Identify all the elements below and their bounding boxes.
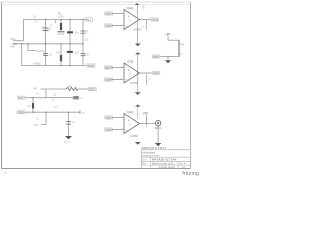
junction dot C4 top bbox=[82, 19, 84, 21]
svg-text:100k: 100k bbox=[58, 15, 64, 19]
frame left border bbox=[1, 2, 3, 169]
svg-text:LM358: LM358 bbox=[130, 81, 138, 85]
svg-text:GND: GND bbox=[64, 141, 70, 144]
junction dot CE2 bottom bbox=[69, 65, 71, 67]
resistor R2 lead bbox=[60, 44, 62, 55]
title block outline top bbox=[141, 149, 190, 151]
svg-text:C: C bbox=[129, 123, 131, 126]
resistor R2 body bbox=[60, 55, 62, 61]
title block column divider 2 bbox=[177, 161, 179, 168]
junction dot D bbox=[167, 56, 169, 58]
wire A lower-left vertical bbox=[21, 44, 23, 66]
svg-text:C2: C2 bbox=[48, 27, 52, 31]
junction dot x45.6 top bbox=[45, 19, 47, 21]
svg-text:+9V: +9V bbox=[86, 18, 91, 22]
frame top border bbox=[2, 1, 191, 3]
wire U1C in1 bbox=[112, 117, 125, 119]
net label A bottom right bbox=[87, 64, 95, 67]
junction dot M2 x46 bbox=[45, 111, 47, 113]
junction dot C5b top bbox=[82, 43, 84, 45]
wire U1A output bbox=[140, 19, 152, 21]
frame right border bbox=[190, 2, 192, 169]
wire U1B in2 bbox=[111, 79, 125, 81]
svg-text:AGND: AGND bbox=[33, 62, 41, 66]
svg-text:MIC: MIC bbox=[11, 45, 16, 49]
junction dot R1 top bbox=[60, 19, 62, 21]
svg-text:IC1A: IC1A bbox=[127, 6, 133, 10]
net label D left bbox=[152, 55, 160, 59]
svg-text:OUT: OUT bbox=[153, 71, 159, 75]
svg-text:10n: 10n bbox=[34, 20, 39, 24]
junction dot bottom x70 bbox=[69, 43, 71, 45]
svg-text:-: - bbox=[126, 65, 127, 69]
connector pin2 stub bbox=[13, 43, 18, 45]
net label U1B in- bbox=[105, 78, 113, 82]
wire A left vertical bbox=[23, 20, 25, 41]
capacitor C5b vertical bbox=[82, 44, 84, 66]
op-amp U1B bbox=[124, 60, 140, 85]
ground GND3 bbox=[135, 142, 141, 145]
svg-text:OUT: OUT bbox=[153, 55, 159, 59]
supply arrow VCC2 bbox=[135, 52, 141, 54]
wire A mid rail bbox=[13, 43, 83, 45]
ground GND4 bbox=[155, 143, 161, 146]
svg-text:10u: 10u bbox=[74, 51, 79, 55]
net label U1C in+ bbox=[105, 116, 113, 120]
svg-text:+: + bbox=[126, 128, 128, 132]
title block divider 1 bbox=[141, 156, 190, 158]
wire C4 vertical bbox=[82, 20, 84, 44]
svg-text:+: + bbox=[126, 78, 128, 82]
svg-text:OUT: OUT bbox=[152, 18, 158, 22]
wire stub x55 bbox=[55, 20, 57, 24]
svg-text:C3: C3 bbox=[49, 53, 53, 57]
net label U1B out bbox=[152, 71, 160, 75]
svg-text:R2: R2 bbox=[57, 51, 61, 55]
junction dot M2 x68.5 bbox=[68, 111, 70, 113]
wire U1A below output bbox=[146, 20, 148, 31]
wire M2 bbox=[25, 111, 80, 113]
wire C7 vertical bbox=[68, 112, 70, 136]
junction dot bottom x28 bbox=[27, 43, 29, 45]
wire output up stub bbox=[146, 115, 148, 124]
wire A bottom rail bbox=[22, 65, 87, 67]
resistor R2 lower lead bbox=[60, 61, 62, 65]
junction dot M2 x33 bbox=[32, 111, 34, 113]
svg-text:IN2: IN2 bbox=[105, 66, 110, 70]
junction dot bottom x45.6 bbox=[45, 43, 47, 45]
wire U1A in1 bbox=[112, 13, 125, 15]
junction dot output bbox=[146, 123, 148, 125]
svg-text:fritzing: fritzing bbox=[182, 171, 199, 176]
wire A top rail bbox=[24, 19, 89, 21]
capacitor CE polarized bbox=[67, 30, 79, 34]
svg-text:IN1: IN1 bbox=[106, 12, 111, 16]
wire U1B in1 bbox=[111, 67, 125, 69]
svg-text:OUT: OUT bbox=[106, 24, 112, 28]
wire D stem bbox=[167, 35, 169, 40]
svg-text:1u0: 1u0 bbox=[34, 123, 39, 127]
capacitor C5b plates bbox=[81, 53, 86, 55]
wire U1B output bbox=[140, 72, 153, 74]
wire D corner bbox=[168, 39, 179, 41]
connector X1 jack bbox=[155, 121, 164, 130]
ground GND5 bbox=[165, 57, 171, 64]
svg-text:C7: C7 bbox=[72, 120, 76, 124]
wire output down stub bbox=[146, 124, 148, 128]
svg-text:R8: R8 bbox=[181, 43, 185, 47]
wire x46 down left bbox=[41, 112, 46, 124]
wire M1 bbox=[25, 97, 77, 99]
frame inner top border bbox=[2, 4, 191, 6]
title block column divider bbox=[150, 157, 152, 168]
svg-text:+9V: +9V bbox=[142, 5, 146, 10]
svg-text:IC1B: IC1B bbox=[127, 60, 133, 64]
frame bottom border bbox=[2, 168, 191, 170]
svg-text:10u: 10u bbox=[74, 30, 79, 34]
svg-text:C4: C4 bbox=[85, 30, 89, 34]
svg-text:C5: C5 bbox=[53, 92, 57, 96]
svg-text:LM358: LM358 bbox=[130, 134, 138, 138]
svg-text:IC1C: IC1C bbox=[127, 110, 133, 114]
wire x28 down bbox=[28, 44, 36, 51]
svg-text:-: - bbox=[126, 12, 127, 16]
svg-text:IN2: IN2 bbox=[18, 96, 23, 100]
svg-text:IN3: IN3 bbox=[106, 116, 111, 120]
supply arrow VCC1 bbox=[134, 3, 139, 5]
title block left edge bbox=[140, 150, 142, 169]
capacitor CE2 vertical bbox=[69, 44, 71, 66]
svg-text:OUT: OUT bbox=[105, 78, 111, 82]
wire R1 lead bbox=[60, 20, 62, 24]
wire corner to R5 bbox=[41, 89, 47, 98]
wire C2-C3 vertical bbox=[45, 20, 47, 66]
junction dot M1 x33 bbox=[32, 97, 34, 99]
svg-text:C7: C7 bbox=[54, 105, 58, 109]
svg-text:AGN: AGN bbox=[88, 64, 94, 68]
wire VCC2-GND2 stem bbox=[137, 54, 139, 92]
wire U1C in2 bbox=[112, 129, 125, 131]
svg-text:4 Amber Series: 4 Amber Series bbox=[159, 166, 176, 169]
net label +9V top rail bbox=[85, 18, 93, 22]
capacitor C7 bbox=[66, 120, 75, 124]
net label U1A in- bbox=[105, 24, 113, 28]
supply arrow VCC3 bbox=[135, 104, 141, 106]
resistor R6 body bbox=[28, 103, 35, 109]
svg-text:AGND: AGND bbox=[37, 49, 45, 53]
capacitor C3 bbox=[43, 53, 52, 57]
svg-text:R6: R6 bbox=[34, 87, 38, 91]
wire J1 pin1 bbox=[13, 40, 24, 42]
wire U1B below output bbox=[146, 73, 148, 85]
svg-text:OUT: OUT bbox=[106, 128, 112, 132]
svg-text:10u: 10u bbox=[85, 38, 90, 42]
wire X1 to ground bbox=[157, 126, 159, 143]
net label U1C in- bbox=[105, 128, 113, 132]
svg-text:C6: C6 bbox=[28, 104, 32, 108]
wire VCC1-GND1 stem bbox=[136, 5, 138, 44]
wire R5 left lead bbox=[46, 88, 66, 90]
svg-text:C1: C1 bbox=[33, 14, 37, 18]
svg-text:+9V: +9V bbox=[143, 111, 148, 115]
wire D bottom bbox=[160, 56, 180, 58]
ground under C7 bbox=[64, 136, 72, 144]
svg-text:C5: C5 bbox=[85, 52, 89, 56]
connector J1 bbox=[11, 37, 17, 49]
op-amp U1C bbox=[124, 110, 140, 138]
svg-text:OUT: OUT bbox=[89, 87, 95, 91]
net label OUT1 bbox=[88, 87, 97, 91]
capacitor CE2 polarized body bbox=[67, 51, 73, 53]
net label U1A in+ bbox=[105, 12, 113, 16]
resistor R1 body bbox=[60, 23, 62, 30]
title block divider 3 bbox=[141, 164, 190, 166]
wire VCC3 stem bbox=[137, 107, 139, 119]
net label M1 left bbox=[18, 96, 26, 100]
junction dot x21.7 bbox=[21, 43, 23, 45]
svg-text:GND: GND bbox=[18, 111, 24, 115]
ground GND1 bbox=[135, 44, 141, 47]
ground AGND under R1 bbox=[57, 32, 65, 36]
resistor R5 zigzag bbox=[66, 87, 78, 90]
net flag M2 right bbox=[79, 110, 81, 114]
net flag M1 right bbox=[73, 96, 79, 99]
wire U1A in2 bbox=[112, 25, 125, 27]
junction dot R2 bottom bbox=[60, 65, 62, 67]
wire CE vertical bbox=[69, 20, 71, 44]
wire R6 vertical bbox=[32, 98, 34, 113]
ground GND2 bbox=[135, 92, 141, 95]
title block divider 2 bbox=[141, 160, 190, 162]
svg-text:MPSA30.6LT.5A4: MPSA30.6LT.5A4 bbox=[152, 158, 177, 162]
resistor R8 red body bbox=[178, 40, 180, 56]
op-amp U1A bbox=[124, 6, 141, 31]
net label U1B in+ bbox=[105, 66, 113, 70]
junction dot R2 top bbox=[60, 43, 62, 45]
svg-text:AGND: AGND bbox=[57, 33, 64, 36]
svg-text:-: - bbox=[126, 116, 127, 120]
capacitor C2 bbox=[43, 27, 52, 31]
net label U1A out bbox=[151, 18, 159, 22]
capacitor C4 bbox=[81, 30, 90, 42]
svg-text:+: + bbox=[126, 24, 128, 28]
net label M2 left bbox=[17, 111, 25, 115]
wire U1C output bbox=[140, 123, 156, 125]
junction dot CE top bbox=[69, 19, 71, 21]
wire R5 right lead bbox=[78, 88, 88, 90]
